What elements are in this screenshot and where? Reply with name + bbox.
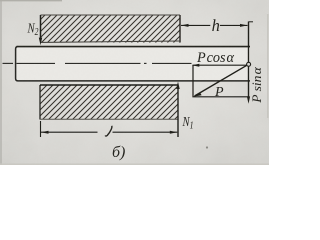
centerline (dash-dot axis) (3, 62, 192, 64)
scan frame edges (0, 0, 269, 165)
N1 arrow (176, 82, 179, 138)
bottom clamp block (hatched) (40, 85, 178, 120)
force rectangle (left and bottom edges) (193, 65, 249, 97)
N2 arrow (39, 15, 42, 45)
P cos alpha arrow (top edge of force rectangle, pointing left) (192, 64, 249, 67)
right extension line (bar end / P sin alpha line) (247, 22, 253, 104)
scan grain overlay (0, 0, 269, 165)
h dimension (181, 24, 248, 27)
paper background (0, 0, 269, 165)
l dimension (41, 121, 178, 137)
l value label (105, 126, 112, 136)
node (force application point) (247, 62, 251, 66)
top clamp block (hatched) (41, 15, 181, 43)
P vector (diagonal) (194, 64, 249, 96)
bar (shaft) (16, 47, 250, 81)
